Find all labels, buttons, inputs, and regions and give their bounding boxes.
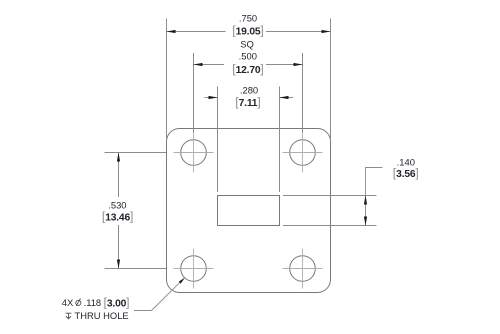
svg-text:[12.70]: [12.70] (232, 62, 264, 76)
hole bottom-right (290, 256, 316, 282)
svg-text:.118: .118 (84, 297, 102, 308)
svg-text:[3.56]: [3.56] (393, 166, 419, 180)
extension line left (.500) (193, 53, 195, 133)
dimension line .280 left outside (205, 97, 218, 99)
extension line top (.530) (105, 152, 167, 154)
centerline cross hole bottom-right (283, 249, 323, 289)
depth / thru symbol (66, 313, 72, 319)
arrowhead hole callout (179, 278, 185, 284)
centerline cross hole top-left (174, 133, 214, 173)
hole top-left (181, 140, 207, 166)
svg-text:[7.11]: [7.11] (235, 95, 260, 109)
svg-text:.500: .500 (239, 51, 257, 62)
plate outline (167, 129, 331, 293)
arrowheads .750 (167, 30, 176, 33)
extension line right (.280) (279, 87, 281, 193)
arrowheads .530 (117, 153, 120, 162)
extension line left (.750) (166, 19, 168, 142)
svg-text:[3.00]: [3.00] (104, 295, 130, 309)
extension line top (.140) (283, 195, 377, 197)
dimension line .750 (167, 31, 331, 33)
center rectangle cutout (218, 196, 280, 226)
dimension line .280 right outside (280, 97, 294, 99)
extension line left (.280) (217, 87, 219, 193)
svg-text:SQ: SQ (240, 38, 254, 49)
centerline cross hole bottom-left (174, 249, 214, 289)
svg-text:.750: .750 (239, 12, 257, 23)
leader hole callout (134, 278, 184, 310)
arrowheads .280 (209, 96, 218, 99)
dimension line .530 (118, 153, 120, 269)
leader .140 (366, 168, 383, 196)
svg-text:.140: .140 (397, 157, 415, 168)
extension line right (.750) (330, 19, 332, 142)
extension line right (.500) (302, 53, 304, 133)
hole top-right (290, 140, 316, 166)
svg-text:.530: .530 (108, 199, 126, 210)
hole bottom-left (181, 256, 207, 282)
diameter symbol (76, 298, 81, 306)
svg-text:[13.46]: [13.46] (102, 210, 134, 224)
svg-text:4X: 4X (62, 297, 74, 308)
extension line bottom (.140) (283, 225, 377, 227)
dimension line .500 (194, 64, 303, 66)
arrowheads .500 (194, 63, 203, 66)
svg-text:.280: .280 (240, 85, 258, 96)
svg-text:THRU HOLE: THRU HOLE (75, 310, 129, 321)
extension line bottom (.530) (105, 268, 167, 270)
arrowheads .140 (364, 196, 367, 205)
svg-text:[19.05]: [19.05] (232, 23, 264, 37)
dimension line .140 (365, 196, 367, 226)
centerline cross hole top-right (283, 133, 323, 173)
